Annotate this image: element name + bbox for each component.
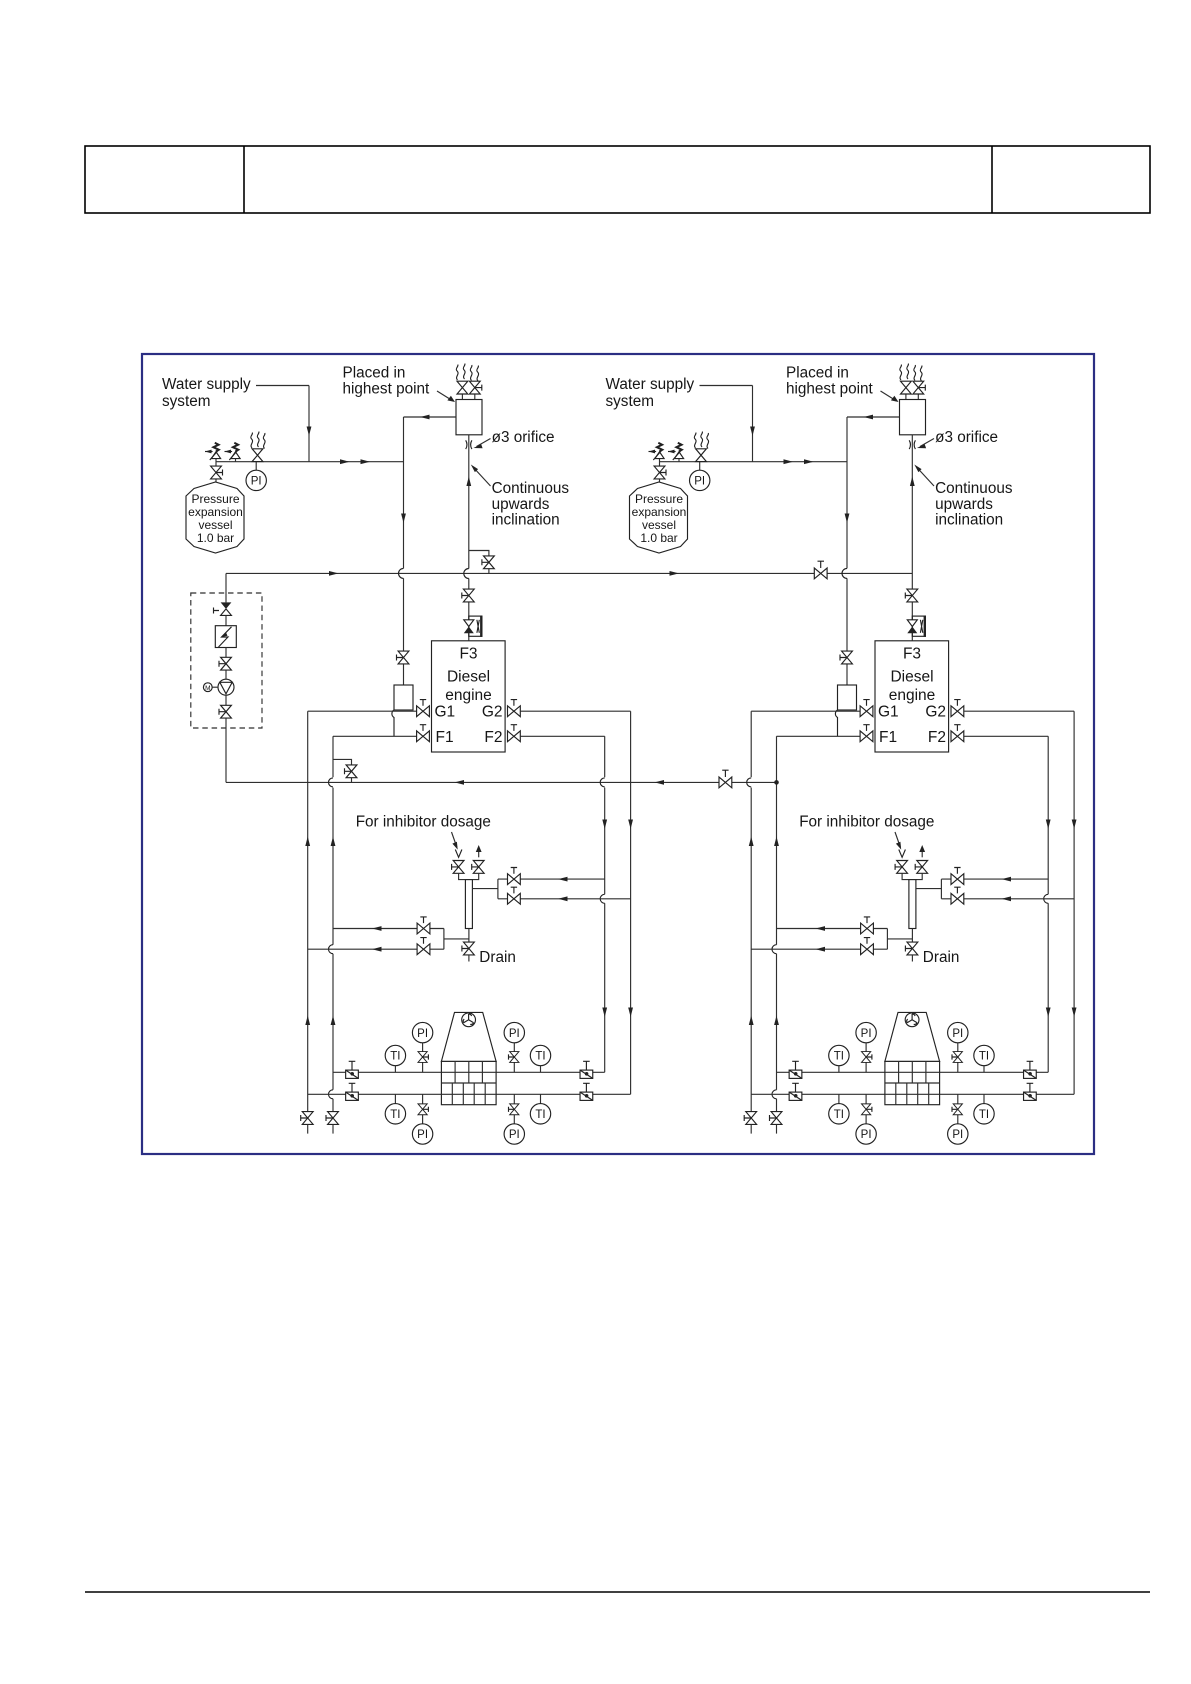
right engine circuit (duplicate)	[606, 364, 1077, 1145]
branch valve	[484, 556, 495, 569]
wire: preheater return drop	[225, 718, 227, 782]
right F3 pipe filler across main	[911, 569, 913, 579]
wire	[225, 648, 227, 658]
left engine circuit	[162, 364, 633, 1145]
svg-text:M: M	[205, 685, 210, 692]
preheater valve 2	[221, 705, 232, 718]
wire: main equalizing header	[226, 572, 912, 574]
jump bows on equalizing line	[329, 778, 334, 787]
footer rule	[85, 1591, 1150, 1593]
wire	[225, 670, 227, 679]
electric preheater	[215, 626, 236, 648]
wire: F1 bypass branch	[333, 759, 352, 782]
wire	[225, 615, 227, 625]
main crossover valve	[814, 568, 827, 579]
jump bow of left F3 pipe over main	[464, 569, 469, 579]
flow arrow right on main	[670, 571, 680, 576]
diagram frame	[142, 354, 1094, 1154]
patches for equalizing line bows	[332, 777, 335, 787]
equalizing crossover valve	[719, 777, 732, 788]
wire	[225, 695, 227, 705]
wire: left main-to-F3 branch	[469, 551, 489, 574]
junction dot	[774, 780, 779, 785]
wire: main drop into preheater	[225, 573, 227, 602]
flow arrow left	[455, 780, 465, 785]
pump motor	[203, 683, 212, 692]
flow arrow right on main	[329, 571, 339, 576]
bypass valve	[346, 765, 357, 778]
preheater dashed enclosure	[191, 593, 262, 728]
wire: engine inlet equalizing line	[226, 781, 777, 783]
header table	[85, 146, 1150, 213]
preheater valve 1	[221, 657, 232, 670]
flow arrow left	[655, 780, 665, 785]
preheater stop-check valve (top filled)	[221, 602, 232, 609]
preheater circulating pump	[218, 679, 234, 695]
